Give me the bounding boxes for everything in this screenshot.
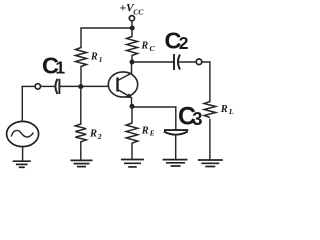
ground (R2) bbox=[71, 160, 93, 166]
resistor R1 bbox=[76, 48, 87, 67]
svg-text:C: C bbox=[150, 44, 156, 53]
svg-text:R: R bbox=[89, 129, 97, 140]
wire RE bottom to ground bbox=[131, 143, 133, 159]
wire C1 to base (through base junction) bbox=[59, 85, 108, 87]
wire Vcc terminal to junction bbox=[131, 21, 133, 28]
wire output terminal to RL bbox=[202, 62, 210, 102]
wire RL bottom to ground bbox=[209, 120, 211, 160]
wire left down to source bbox=[21, 86, 23, 121]
ground (RL) bbox=[198, 160, 223, 167]
svg-text:E: E bbox=[149, 129, 155, 137]
wire input terminal to C1 bbox=[41, 85, 55, 87]
ground (RE) bbox=[121, 160, 144, 167]
resistor Rc bbox=[127, 37, 138, 56]
wire Rc bottom to collector junction bbox=[131, 56, 133, 63]
wire collector junction to C2 bbox=[132, 61, 174, 63]
label C2 bbox=[165, 28, 189, 54]
node Vcc junction bbox=[130, 26, 135, 31]
svg-text:L: L bbox=[228, 107, 234, 116]
svg-text:R: R bbox=[141, 41, 149, 52]
label Rc bbox=[141, 41, 156, 53]
resistor R2 bbox=[75, 124, 86, 142]
svg-text:R: R bbox=[141, 125, 149, 136]
svg-text:2: 2 bbox=[179, 33, 189, 53]
AC source Vs bbox=[7, 121, 39, 146]
svg-text:CC: CC bbox=[133, 7, 144, 16]
label R1 bbox=[90, 52, 103, 64]
label RE bbox=[141, 125, 155, 137]
wire C2 to output terminal bbox=[178, 61, 196, 63]
svg-text:R: R bbox=[90, 52, 98, 63]
resistor RE bbox=[126, 123, 138, 143]
ground (source) bbox=[13, 161, 31, 167]
output terminal bbox=[196, 59, 202, 65]
wire left corner to input terminal bbox=[22, 85, 35, 87]
svg-text:1: 1 bbox=[99, 55, 103, 64]
label +Vcc bbox=[120, 3, 145, 17]
label C3 bbox=[178, 102, 203, 130]
svg-text:2: 2 bbox=[97, 132, 102, 141]
wire C3 to ground bbox=[175, 135, 177, 160]
input terminal bbox=[35, 84, 40, 89]
transistor Q1 bbox=[108, 64, 137, 106]
svg-text:3: 3 bbox=[192, 108, 202, 129]
ground (C3) bbox=[163, 160, 188, 166]
wire source to ground bbox=[22, 147, 24, 161]
node base junction bbox=[78, 84, 83, 89]
node emitter junction bbox=[130, 104, 135, 109]
wire Vcc junction down to Rc bbox=[131, 28, 133, 37]
wire top rail to R1 bbox=[81, 28, 132, 48]
label RL bbox=[220, 104, 234, 116]
wire emitter junction to RE bbox=[131, 106, 133, 123]
Vcc supply terminal bbox=[129, 16, 134, 21]
wire R2 bottom to ground bbox=[80, 142, 82, 160]
capacitor C1 bbox=[55, 79, 59, 94]
resistor RL bbox=[204, 102, 216, 118]
svg-text:R: R bbox=[220, 104, 228, 115]
wire base junction down to R2 bbox=[80, 87, 82, 125]
label R2 bbox=[89, 129, 102, 142]
label C1 bbox=[42, 53, 65, 79]
capacitor C2 bbox=[174, 54, 180, 70]
capacitor C3 bbox=[164, 130, 188, 135]
wire R1 bottom to base junction bbox=[80, 67, 82, 87]
node collector junction bbox=[130, 60, 135, 65]
wire emitter junction to C3 bbox=[132, 107, 176, 129]
svg-text:1: 1 bbox=[55, 58, 65, 78]
